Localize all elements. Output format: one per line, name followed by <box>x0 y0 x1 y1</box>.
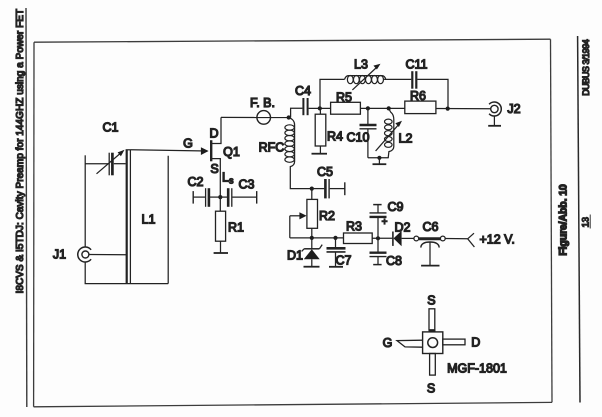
svg-text:G: G <box>383 336 393 350</box>
svg-text:J1: J1 <box>53 248 66 262</box>
node C7 <box>333 236 337 240</box>
svg-text:S: S <box>427 382 435 396</box>
svg-text:C9: C9 <box>388 200 404 214</box>
svg-text:RFC: RFC <box>259 141 285 155</box>
svg-text:F. B.: F. B. <box>250 96 275 110</box>
inductor L2 <box>388 108 394 157</box>
svg-text:C10: C10 <box>347 131 370 145</box>
svg-text:Ls: Ls <box>222 171 234 186</box>
inductor L3 <box>345 76 386 80</box>
capacitor C9 <box>377 217 379 238</box>
svg-text:R3: R3 <box>346 219 362 233</box>
border frame <box>34 39 552 407</box>
svg-text:J2: J2 <box>507 102 520 116</box>
wire step up to C4 <box>291 108 303 117</box>
diode D2 <box>392 232 394 246</box>
svg-text:C5: C5 <box>317 165 333 179</box>
svg-text:MGF-1801: MGF-1801 <box>447 361 507 375</box>
svg-text:R4: R4 <box>327 130 343 144</box>
capacitor C3 <box>220 196 227 198</box>
source lead bottom <box>430 354 436 376</box>
node B (R5/C10) <box>366 106 370 110</box>
zener diode D1 <box>311 238 313 249</box>
svg-text:C1: C1 <box>103 120 119 134</box>
svg-text:L3: L3 <box>354 57 368 71</box>
svg-text:R1: R1 <box>228 221 244 235</box>
transistor Q1 channel bar <box>210 140 212 161</box>
source lead top <box>429 309 435 330</box>
svg-text:C11: C11 <box>405 58 427 72</box>
node after bead <box>287 115 291 119</box>
inductor RFC <box>289 118 312 189</box>
svg-text:I8CVS & I5TDJ: Cavity Preamp f: I8CVS & I5TDJ: Cavity Preamp for 144GHZ … <box>15 9 26 294</box>
transistor Q1 gate arrow <box>201 147 209 155</box>
left margin rule <box>25 8 28 407</box>
connector J1 <box>78 247 91 262</box>
svg-text:L2: L2 <box>399 131 413 145</box>
node C (L2) <box>387 106 391 110</box>
R2 wiper arrow <box>290 215 301 217</box>
right margin rule <box>578 36 580 403</box>
svg-text:C7: C7 <box>336 254 352 268</box>
resistor R4 <box>319 108 321 114</box>
svg-text:Figure/Abb. 10: Figure/Abb. 10 <box>558 184 570 256</box>
resistor R2 (variable) <box>311 189 313 200</box>
resistor R5 <box>331 102 361 114</box>
ground under tank <box>373 163 387 165</box>
resistor R3 <box>344 233 373 244</box>
svg-text:R2: R2 <box>319 209 335 223</box>
svg-text:D: D <box>209 127 218 141</box>
tank bottom wire <box>368 157 389 159</box>
capacitor C7 <box>335 238 337 247</box>
capacitor C1 (variable) <box>85 163 108 165</box>
wire drain to RFC node <box>221 116 289 118</box>
wire gate: cavity top to Q1 <box>126 149 131 151</box>
resistor R1 <box>219 197 221 211</box>
svg-text:D: D <box>471 335 480 349</box>
svg-text:Q1: Q1 <box>223 145 240 159</box>
node C9/C8 <box>376 236 380 240</box>
svg-text:+: + <box>382 217 388 228</box>
svg-text:C8: C8 <box>386 254 402 268</box>
capacitor C8 <box>377 238 379 252</box>
svg-text:DUBUS 3/1994: DUBUS 3/1994 <box>581 39 591 96</box>
svg-text:C2: C2 <box>188 175 204 189</box>
capacitor C2 <box>210 196 220 198</box>
svg-text:S: S <box>427 294 435 308</box>
drain lead right <box>443 339 465 345</box>
transistor Q1 drain lead <box>212 117 221 143</box>
cavity bottom wall <box>85 283 169 285</box>
capacitor C10 <box>367 108 369 124</box>
feedthrough capacitor C6 <box>414 236 419 241</box>
node D (C11/R6/J2) <box>446 107 450 111</box>
cavity centre conductor (thin) <box>129 150 131 284</box>
svg-text:L1: L1 <box>142 212 156 226</box>
svg-text:D1: D1 <box>287 249 303 263</box>
node A (C4/R5/R4/L3) <box>318 106 322 110</box>
svg-text:+12 V.: +12 V. <box>480 233 515 247</box>
node source junction <box>218 195 222 199</box>
svg-text:G: G <box>183 136 193 150</box>
gate lead left <box>397 340 423 347</box>
connector J2 <box>489 102 501 116</box>
cavity L1 outer wall left <box>84 155 86 247</box>
cavity centre conductor (thick) <box>126 150 128 284</box>
svg-text:D2: D2 <box>395 221 411 235</box>
wire J1 to centre conductor <box>89 254 127 256</box>
cavity right wall <box>167 156 169 284</box>
node C5/R2 <box>310 187 314 191</box>
+12V input <box>445 238 468 240</box>
package body <box>423 332 443 354</box>
capacitor C5 <box>312 188 325 190</box>
ferrite bead F.B. <box>257 111 271 125</box>
svg-text:C3: C3 <box>239 178 255 192</box>
svg-text:R6: R6 <box>410 89 426 103</box>
svg-text:C6: C6 <box>423 220 439 234</box>
capacitor C11 <box>411 71 413 89</box>
resistor R6 <box>405 101 436 114</box>
svg-text:S: S <box>210 162 218 176</box>
node D1/R2 <box>310 236 314 240</box>
transistor Q1 source lead <box>212 159 221 198</box>
bias bottom wire <box>290 237 344 239</box>
svg-text:C4: C4 <box>295 84 311 98</box>
L3 + C11 bridge <box>320 79 345 108</box>
capacitor C4 <box>302 98 304 115</box>
ground under R1 <box>214 252 228 254</box>
ground under R4 <box>312 153 328 155</box>
svg-text:R5: R5 <box>336 90 352 104</box>
